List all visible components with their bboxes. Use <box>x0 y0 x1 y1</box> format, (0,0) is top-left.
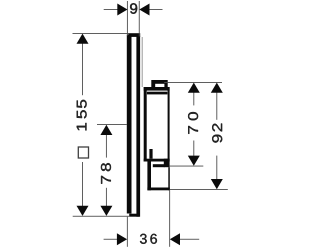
extension line top of body right <box>164 81 222 84</box>
arrow 155 top <box>77 34 89 44</box>
dim line 70 upper segment <box>192 92 195 105</box>
arrow 9 left <box>117 4 127 16</box>
bottom right dark block <box>164 159 170 168</box>
label 92 <box>212 124 222 143</box>
extension line vertical left of 9-dim <box>126 1 129 36</box>
extension line center of body <box>97 123 127 126</box>
lower housing bottom edge <box>147 188 169 191</box>
arrow 70 top <box>188 83 200 93</box>
arrow 70 bottom <box>188 156 200 166</box>
dim line 155 upper segment <box>81 43 84 96</box>
dim line 9 left segment <box>104 8 119 11</box>
arrow 36 right <box>170 233 180 245</box>
extension line vertical right of 9-dim <box>138 1 141 37</box>
arrow 9 right <box>139 4 149 16</box>
plate front face (heavy left edge) <box>127 35 132 214</box>
label 70 <box>188 112 198 134</box>
body left edge <box>144 87 147 162</box>
extension line bottom of body (70) <box>170 165 204 168</box>
body top edge bar <box>144 87 170 91</box>
lower housing left edge <box>147 162 151 191</box>
dim line 70 lower segment <box>192 141 195 156</box>
body bottom edge bar <box>144 159 170 162</box>
square symbol of 155 label <box>78 147 88 158</box>
plate bottom edge bar <box>129 214 139 217</box>
dim line 78 upper segment <box>105 134 108 157</box>
plate right (back) edge bar <box>136 36 140 217</box>
extension line vertical below housing (36 right) <box>168 190 171 247</box>
body right edge <box>168 87 170 162</box>
dim line 78 lower segment <box>105 188 108 207</box>
arrow 78 bottom <box>100 206 112 216</box>
arrow 36 left <box>117 233 127 245</box>
arrow 155 bottom <box>77 206 89 216</box>
dim line 92 upper segment <box>215 92 218 120</box>
extension line bottom of housing (92) <box>170 188 228 191</box>
extension line top of plate <box>73 32 130 35</box>
cap button on top of body <box>151 80 167 87</box>
dim line 9 right segment <box>148 8 162 11</box>
lower housing right edge <box>168 167 170 190</box>
label 78 <box>101 163 111 184</box>
dim line 36 right tail <box>179 238 199 241</box>
plate top edge bar <box>128 33 140 37</box>
bottom spigot <box>154 162 164 165</box>
body inner ring bar <box>147 92 168 95</box>
arrow 92 top <box>211 83 223 93</box>
arrow 78 top <box>100 125 112 135</box>
label 9 <box>130 3 137 13</box>
body inner ring gap <box>147 91 168 92</box>
dim line 155 lower segment <box>81 162 84 207</box>
extension line bottom of plate <box>73 215 130 218</box>
label 36 <box>140 234 157 244</box>
hidden stem line between plate and body <box>142 37 143 87</box>
arrow 92 bottom <box>211 179 223 189</box>
dim line 36 left tail <box>104 238 118 241</box>
dim line 92 lower segment <box>215 156 218 180</box>
label 155 <box>77 100 87 131</box>
extension line vertical below plate (36 left) <box>126 217 129 247</box>
body bottom inner step line <box>149 149 152 159</box>
